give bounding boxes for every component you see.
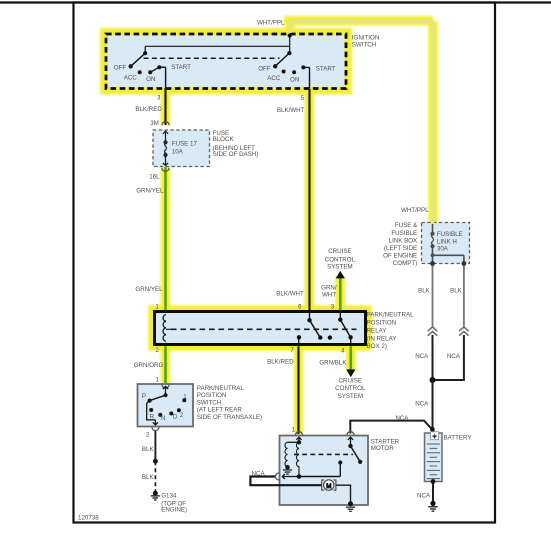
svg-text:+: + xyxy=(433,433,437,440)
wire BLK/WHT highlight (ignition pin5 to relay pin6) xyxy=(305,89,314,312)
terminal arrow NCA into starter xyxy=(282,474,299,479)
svg-text:6: 6 xyxy=(298,304,302,311)
battery box xyxy=(425,433,443,482)
ignition switch internals xyxy=(129,33,310,88)
continuation chevrons left wire xyxy=(428,327,438,336)
svg-text:M: M xyxy=(326,483,331,490)
wire GRN/WHT core xyxy=(339,278,342,311)
relay contact from pin6 xyxy=(309,313,311,321)
svg-text:SIDE OF DASH): SIDE OF DASH) xyxy=(213,151,259,158)
battery plates xyxy=(427,444,440,479)
node at fusible box bottom left xyxy=(430,261,435,266)
svg-text:R: R xyxy=(150,414,155,421)
svg-text:BLK: BLK xyxy=(418,287,431,294)
park/neutral position switch internals xyxy=(147,385,187,431)
svg-text:5: 5 xyxy=(301,95,305,102)
wire motor to case ground xyxy=(336,485,351,503)
svg-text:1: 1 xyxy=(292,427,296,434)
YELLOW_LAYER xyxy=(106,21,433,434)
svg-text:P: P xyxy=(142,393,146,400)
relay stationary contact (nc) xyxy=(328,335,332,339)
wire rail between switch wafers xyxy=(145,36,290,54)
svg-text:1: 1 xyxy=(155,304,159,311)
wire GRN/ORG core xyxy=(164,346,167,383)
svg-text:POSITION: POSITION xyxy=(197,392,227,399)
wire inside fusible box to both outlets xyxy=(433,246,464,263)
svg-text:2: 2 xyxy=(180,412,184,419)
ignition switch highlight glow xyxy=(106,34,346,89)
park/neutral position relay box xyxy=(155,312,366,345)
svg-text:FUSE 17: FUSE 17 xyxy=(172,140,198,147)
wafer 2 START contact xyxy=(301,65,305,69)
relay stationary contact to pin7 xyxy=(297,335,301,339)
terminal arrow into starter (solenoid) xyxy=(296,437,301,442)
PNP contact R xyxy=(149,408,153,412)
connector arc at starter left (NCA) xyxy=(275,473,279,480)
pnp position labels xyxy=(142,393,187,422)
arrow to cruise control (up) xyxy=(336,271,345,279)
page top rule xyxy=(0,1,551,3)
svg-text:BLOCK: BLOCK xyxy=(213,136,235,143)
connector arc at fuse block top xyxy=(162,122,169,126)
PNP contact 1 xyxy=(182,398,186,402)
wire BLK/RED highlight (relay pin7 to starter motor) xyxy=(294,345,303,434)
svg-text:MOTOR: MOTOR xyxy=(371,445,394,452)
relay coil xyxy=(163,315,166,342)
svg-text:120738: 120738 xyxy=(78,515,99,522)
svg-text:BLK: BLK xyxy=(142,474,155,481)
svg-text:BATTERY: BATTERY xyxy=(444,435,472,442)
svg-text:3M: 3M xyxy=(150,120,159,127)
node at fusible box bottom right xyxy=(462,261,467,266)
battery positive terminal xyxy=(431,432,439,440)
wire BLK left (fusible box to chevron) xyxy=(432,264,434,327)
diagram frame border xyxy=(74,3,496,523)
wafer 2 contact ON xyxy=(292,70,296,74)
svg-text:SYSTEM: SYSTEM xyxy=(327,263,352,270)
wire WHT/PPL core xyxy=(290,21,433,225)
svg-text:ON: ON xyxy=(146,76,155,83)
battery internals xyxy=(427,432,440,484)
svg-text:OF ENGINE: OF ENGINE xyxy=(383,253,417,260)
wire BLK/WHT core xyxy=(308,89,310,311)
svg-text:16L: 16L xyxy=(149,173,160,180)
svg-text:1: 1 xyxy=(156,377,160,384)
node solenoid top xyxy=(297,440,301,444)
relay dashed actuator line xyxy=(171,328,357,330)
fuse F17 element xyxy=(163,140,167,144)
motor M1 armature xyxy=(324,480,334,490)
connector arc at PNP switch bottom xyxy=(152,427,159,431)
starter stationary contact to motor xyxy=(338,460,342,464)
wafer 1 START lever and contact xyxy=(150,67,165,88)
svg-text:D: D xyxy=(173,414,178,421)
TEXT_LAYER xyxy=(114,20,472,514)
svg-text:7: 7 xyxy=(290,347,294,354)
wire BLK PNP switch to splice xyxy=(154,430,156,461)
svg-text:GRN/YEL: GRN/YEL xyxy=(136,187,164,194)
svg-text:WHT/PPL: WHT/PPL xyxy=(257,20,285,27)
arrow to cruise control (down) xyxy=(346,369,355,377)
svg-text:ENGINE): ENGINE) xyxy=(161,507,187,514)
ground at hold-in coil xyxy=(285,465,290,470)
svg-text:SYSTEM: SYSTEM xyxy=(338,393,363,400)
node at battery negative xyxy=(431,479,436,484)
svg-text:FUSIBLE: FUSIBLE xyxy=(437,231,463,238)
svg-text:GRN/BLK: GRN/BLK xyxy=(319,359,347,366)
svg-text:30A: 30A xyxy=(437,246,449,253)
svg-text:NCA: NCA xyxy=(252,471,266,478)
wire BLK/RED core (pin7 to starter) xyxy=(297,346,299,434)
fusible link box internals xyxy=(430,224,466,266)
svg-text:BLK/WHT: BLK/WHT xyxy=(276,290,304,297)
switch wafer 1 lever (pivot to OFF) xyxy=(131,53,146,66)
svg-text:POSITION: POSITION xyxy=(367,320,397,327)
wire GRN/YEL core xyxy=(164,167,167,310)
svg-text:GRN/ORG: GRN/ORG xyxy=(134,362,164,369)
solenoid hold-in coil xyxy=(285,442,288,467)
PNP contact N xyxy=(158,413,162,417)
relay highlight glow xyxy=(155,312,366,345)
svg-text:RELAY: RELAY xyxy=(367,328,387,335)
node solenoid coil to motor feed xyxy=(297,474,302,479)
svg-text:NCA: NCA xyxy=(417,493,431,500)
wire BLK dashed splice to ground xyxy=(154,461,156,491)
svg-text:CONTROL: CONTROL xyxy=(335,385,366,392)
wafer 2 contact ACC xyxy=(282,70,286,74)
svg-text:NCA: NCA xyxy=(415,353,429,360)
PNP lever pin1 to P contact xyxy=(163,393,167,397)
svg-text:PARK/NEUTRAL: PARK/NEUTRAL xyxy=(197,385,245,392)
svg-text:2: 2 xyxy=(155,347,159,354)
wire BLK right (fusible box to chevron) xyxy=(463,264,465,327)
svg-text:OFF: OFF xyxy=(114,65,127,72)
node splice S1 xyxy=(153,459,158,464)
svg-text:ACC: ACC xyxy=(267,75,281,82)
svg-text:GRN/YEL: GRN/YEL xyxy=(135,286,163,293)
wire GRN/YEL highlight (fuse block to relay pin1) xyxy=(161,168,170,312)
continuation chevrons right wire xyxy=(459,327,469,336)
node at battery positive xyxy=(430,427,435,432)
svg-text:START: START xyxy=(171,64,191,71)
relay internals xyxy=(163,313,356,344)
solenoid pull-in coil xyxy=(296,442,299,476)
terminal arrow out of fuse block xyxy=(163,155,168,166)
wire GRN/ORG highlight (relay pin2 to PNP switch) xyxy=(161,345,170,384)
wire battery negative to ground xyxy=(432,482,434,504)
starter motor internals xyxy=(275,432,362,512)
svg-text:NCA: NCA xyxy=(395,415,409,422)
wire NCA battery to starter motor (horizontal) xyxy=(350,421,432,434)
svg-text:FUSE &: FUSE & xyxy=(395,222,418,229)
svg-text:(AT LEFT REAR: (AT LEFT REAR xyxy=(197,407,243,414)
svg-text:WHT/PPL: WHT/PPL xyxy=(401,207,429,214)
connector arc at fuse block bottom xyxy=(162,168,169,172)
svg-text:10A: 10A xyxy=(172,149,184,156)
node at WHT/PPL feed xyxy=(288,33,292,37)
PNP contact D xyxy=(169,412,173,416)
terminal arrow into fuse block xyxy=(163,131,168,141)
svg-text:GRN/: GRN/ xyxy=(321,285,337,292)
svg-text:WHT: WHT xyxy=(322,292,336,299)
wire GRN/BLK highlight (relay pin4 to cruise arrow) xyxy=(346,345,355,372)
svg-text:2: 2 xyxy=(146,432,150,439)
svg-text:(LEFT SIDE: (LEFT SIDE xyxy=(384,245,417,252)
svg-text:BLK: BLK xyxy=(142,446,155,453)
connector arc at starter terminal B xyxy=(347,432,354,436)
svg-text:NCA: NCA xyxy=(447,353,461,360)
svg-text:ACC: ACC xyxy=(124,74,138,81)
fusible link H element xyxy=(432,224,434,234)
starter switch contact xyxy=(348,444,352,448)
park/neutral position switch box xyxy=(138,384,194,427)
wire NCA right vertical and jog to junction xyxy=(433,335,464,380)
svg-text:ON: ON xyxy=(290,77,299,84)
svg-text:BLK/RED: BLK/RED xyxy=(267,358,294,365)
svg-text:CONTROL: CONTROL xyxy=(325,256,356,263)
ignition switch box U-IGN xyxy=(106,34,346,89)
svg-text:(IN RELAY: (IN RELAY xyxy=(367,336,397,343)
svg-text:SWITCH: SWITCH xyxy=(197,399,221,406)
svg-text:FUSIBLE: FUSIBLE xyxy=(391,230,417,237)
svg-text:LINK H: LINK H xyxy=(437,239,457,246)
wafer 1 contact ON xyxy=(148,70,152,74)
svg-text:3: 3 xyxy=(157,94,161,101)
svg-text:SWITCH: SWITCH xyxy=(352,41,376,48)
svg-text:BOX 2): BOX 2) xyxy=(367,343,387,350)
wire NCA left vertical (chevron to junction) xyxy=(432,335,434,380)
connector arc at PNP switch top xyxy=(162,385,169,389)
fuse block box xyxy=(153,130,210,167)
svg-text:START: START xyxy=(316,65,336,72)
svg-text:G134: G134 xyxy=(161,492,177,499)
wire BLK/RED core (pin3 to fuse) xyxy=(164,88,166,125)
fuse block internals xyxy=(162,122,169,172)
relay contact from pin3 to pin4 xyxy=(339,313,341,320)
svg-text:BLK: BLK xyxy=(450,287,463,294)
wire NCA loop at starter motor xyxy=(250,477,321,486)
connector arc at starter terminal 1 xyxy=(295,432,302,436)
svg-text:BLK/WHT: BLK/WHT xyxy=(277,107,305,114)
terminal arrow into starter (battery) xyxy=(348,437,353,446)
svg-text:NCA: NCA xyxy=(415,400,429,407)
wire NCA junction to battery xyxy=(432,380,434,433)
svg-text:3: 3 xyxy=(331,304,335,311)
ground below battery xyxy=(430,501,435,506)
switch wafer 2 lever (pivot to OFF) xyxy=(275,53,289,66)
svg-text:COMPT): COMPT) xyxy=(393,260,417,267)
starter dashed actuator line xyxy=(294,453,353,455)
svg-text:SIDE OF TRANSAXLE): SIDE OF TRANSAXLE) xyxy=(197,414,262,421)
dashed gang line xyxy=(144,57,280,59)
motor brushes xyxy=(322,480,336,490)
PNP contact P xyxy=(148,399,152,403)
svg-text:1: 1 xyxy=(183,394,187,401)
ground G134 xyxy=(153,491,158,496)
terminal arrow into PNP switch xyxy=(163,386,168,395)
starter motor box xyxy=(280,436,369,506)
svg-text:LINK BOX: LINK BOX xyxy=(389,238,418,245)
wafer 1 contact ACC xyxy=(138,70,142,74)
wire WHT/PPL highlight (ignition top to fusible link box) xyxy=(284,21,433,224)
svg-text:N: N xyxy=(161,415,165,422)
svg-text:4: 4 xyxy=(341,348,345,355)
wire GRN/BLK core xyxy=(349,346,352,370)
node junction above battery xyxy=(430,377,436,383)
svg-text:BLK/RED: BLK/RED xyxy=(135,106,162,113)
wire P contact to pin2 xyxy=(147,401,158,425)
svg-text:PARK/NEUTRAL: PARK/NEUTRAL xyxy=(367,312,415,319)
wire BLK/RED highlight (ignition pin3 to fuse block) xyxy=(161,88,170,125)
svg-text:OFF: OFF xyxy=(258,65,271,72)
PNP contact 2 xyxy=(177,408,181,412)
svg-text:CRUISE: CRUISE xyxy=(339,378,362,385)
fuse & fusible link box xyxy=(422,223,470,264)
svg-text:CRUISE: CRUISE xyxy=(328,248,351,255)
wire GRN/WHT highlight (cruise control to relay pin3) xyxy=(336,277,345,312)
ground at starter case xyxy=(348,501,353,506)
